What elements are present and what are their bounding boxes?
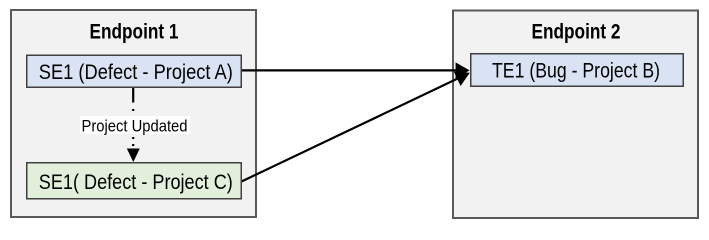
svg-text:Endpoint 1: Endpoint 1: [90, 21, 179, 44]
svg-text:TE1 (Bug - Project B): TE1 (Bug - Project B): [492, 60, 660, 83]
svg-text:Endpoint 2: Endpoint 2: [532, 21, 621, 44]
svg-text:SE1 (Defect - Project A): SE1 (Defect - Project A): [39, 61, 233, 84]
svg-text:SE1( Defect - Project C): SE1( Defect - Project C): [39, 171, 233, 194]
svg-text:Project Updated: Project Updated: [82, 116, 188, 135]
